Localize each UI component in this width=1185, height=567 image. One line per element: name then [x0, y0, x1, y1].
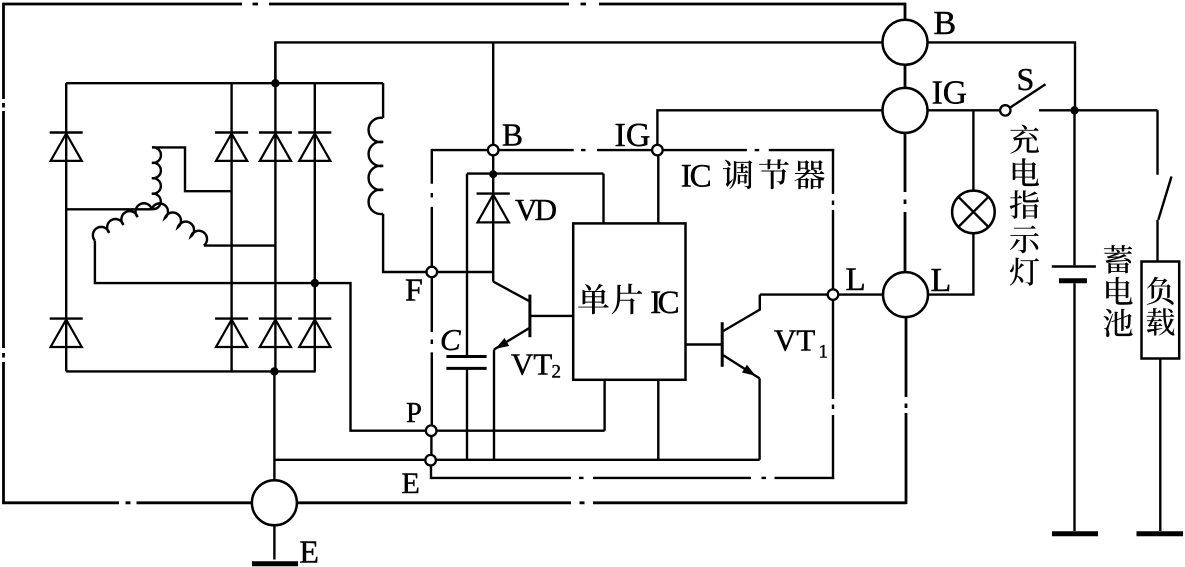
wire diode column 1	[65, 83, 67, 371]
transistor VT2 base bar	[528, 295, 531, 338]
label VT2	[511, 347, 561, 383]
IC regulator enclosure bottom (dash-dot)	[431, 477, 834, 479]
stator winding phase 1 (top coil)	[152, 147, 161, 209]
wire battery negative to ground	[1073, 283, 1075, 531]
switch S lever	[1011, 84, 1046, 107]
svg-text:IG: IG	[932, 75, 967, 112]
ground battery	[1052, 531, 1098, 536]
terminal B (circle)	[883, 20, 928, 65]
transistor VT1 emitter	[723, 355, 759, 378]
diode negative rectifier D8	[298, 319, 331, 347]
node E (regulator terminal)	[425, 455, 436, 466]
rotor field winding (coil)	[369, 118, 384, 214]
svg-text:E: E	[402, 467, 420, 500]
node P (regulator terminal)	[426, 425, 437, 436]
wire B internal rail	[467, 172, 604, 174]
battery 蓄电池 plates	[1052, 267, 1096, 281]
wire node L to terminal L	[838, 293, 883, 295]
wire B+ to terminal B	[275, 42, 883, 83]
svg-text:VT: VT	[511, 347, 552, 382]
stator winding phase 2 (right coil)	[152, 203, 207, 245]
wire terminal IG to switch	[927, 109, 1000, 111]
junction dot battery node	[1070, 106, 1078, 114]
wire E line (regulator)	[436, 459, 760, 461]
wire node B to junction	[492, 155, 494, 281]
switch S contact	[1000, 105, 1010, 115]
charge indicator lamp	[952, 191, 995, 234]
IC regulator enclosure left (dash-dot)	[430, 149, 433, 479]
junction dot phase 3 / diode column 4	[311, 279, 319, 287]
load box 负载	[1142, 262, 1180, 359]
label IC 调节器	[681, 159, 825, 195]
transistor VT1 collector	[723, 295, 760, 331]
diode positive rectifier D1	[50, 133, 83, 161]
svg-text:S: S	[1017, 61, 1035, 97]
wire VT2 base to IC	[531, 315, 573, 317]
svg-text:2: 2	[552, 362, 562, 383]
transistor VT2 emitter	[494, 328, 529, 350]
transistor VT1 base bar	[721, 322, 724, 367]
wire phase 3 tap to P	[95, 241, 426, 431]
wire diode column 2	[230, 83, 232, 371]
diode VD	[477, 194, 510, 223]
wire E lead (ground bus to terminal E)	[273, 371, 275, 481]
transistor VT2 emitter arrow	[495, 338, 509, 349]
wire B feed to node B	[492, 42, 494, 144]
svg-text:1: 1	[819, 342, 829, 363]
ground chassis (E)	[252, 561, 298, 566]
wire E branch to regulator	[275, 459, 425, 461]
svg-text:E: E	[299, 534, 319, 567]
load switch lever	[1158, 177, 1171, 220]
transistor VT1 emitter arrow	[742, 365, 756, 376]
wire terminal E to chassis	[273, 525, 275, 560]
node IG (regulator terminal)	[652, 145, 663, 156]
ground load	[1137, 531, 1184, 536]
junction dot B+ bus / output	[271, 79, 279, 87]
diode negative rectifier D6	[215, 319, 248, 347]
wire B+ bus (top)	[66, 82, 383, 84]
wire field winding top	[382, 83, 384, 118]
terminal L (circle)	[883, 272, 928, 317]
alternator enclosure top border (dash-dot)	[3, 3, 906, 6]
wire VT1 emitter to E line	[758, 378, 760, 459]
wire load to ground	[1159, 359, 1161, 532]
svg-text:F: F	[405, 272, 423, 308]
wire switch to battery node	[1039, 109, 1158, 111]
stator winding phase 3 (left coil)	[93, 203, 152, 240]
IC regulator enclosure top (dash-dot)	[432, 149, 834, 151]
diode positive rectifier D2	[215, 133, 248, 161]
label 蓄电池	[1103, 245, 1132, 337]
terminal E (circle)	[252, 480, 297, 525]
wire IC to IG node	[657, 155, 659, 223]
wire terminal B to battery node	[927, 42, 1075, 110]
svg-text:IC: IC	[681, 159, 712, 195]
svg-text:VT: VT	[774, 323, 815, 358]
diode positive rectifier D3	[259, 133, 292, 161]
svg-text:B: B	[934, 5, 957, 42]
wire load switch to load	[1156, 220, 1158, 262]
wire load branch	[1156, 110, 1158, 175]
wire diode column 3	[274, 42, 276, 371]
wire ground bus (bottom)	[66, 370, 315, 372]
diode negative rectifier D5	[50, 319, 83, 347]
wire battery positive	[1073, 110, 1075, 265]
wire P line	[437, 430, 605, 432]
wire VT2 emitter to E line	[493, 350, 495, 460]
node F (regulator terminal)	[427, 267, 438, 278]
svg-text:B: B	[502, 118, 523, 153]
svg-text:VD: VD	[515, 192, 557, 227]
svg-text:P: P	[406, 398, 422, 429]
wire field winding to F	[383, 214, 427, 272]
monolithic IC box (单片 IC)	[573, 223, 685, 379]
wire IG node to terminal IG	[657, 110, 883, 145]
svg-text:IC: IC	[650, 285, 680, 321]
alternator enclosure left border (dash-dot)	[2, 3, 5, 504]
wire rail to IC supply	[602, 174, 604, 224]
wire lamp to terminal L	[928, 233, 973, 294]
wire IC to E line	[657, 380, 659, 460]
svg-text:IG: IG	[615, 117, 651, 154]
wire F to VT2 collector	[437, 271, 493, 273]
wire lamp branch	[972, 110, 974, 190]
diode positive rectifier D4	[298, 133, 331, 161]
junction dot ground bus / E lead	[270, 367, 278, 375]
wire rail to capacitor	[466, 174, 468, 357]
wire VT1 collector to node L	[760, 293, 828, 295]
junction dot B internal	[489, 170, 497, 178]
terminal IG (circle)	[883, 88, 928, 133]
wire phase 1 tap	[152, 147, 232, 191]
node B (regulator terminal)	[488, 145, 499, 156]
wire IC to P line	[603, 380, 605, 431]
wire IC to VT1 base	[686, 343, 722, 345]
wire phase 2 tap	[204, 244, 276, 246]
wire neutral point	[66, 208, 152, 210]
label 负载	[1146, 277, 1174, 336]
diode negative rectifier D7	[259, 319, 292, 347]
node L (regulator terminal)	[828, 289, 839, 300]
alternator enclosure right border through terminals	[905, 3, 906, 504]
svg-text:L: L	[846, 262, 866, 298]
alternator enclosure bottom border (dash-dot)	[2, 501, 906, 504]
svg-text:C: C	[440, 322, 461, 357]
label 充电指示灯	[1010, 125, 1039, 286]
capacitor C	[446, 357, 486, 369]
transistor VT2 collector	[493, 282, 529, 302]
wire capacitor to E line	[466, 368, 468, 459]
IC regulator enclosure right (dash-dot)	[832, 149, 834, 479]
wire diode column 4	[314, 83, 316, 371]
label 单片 IC	[578, 284, 680, 321]
label VT1	[774, 323, 828, 363]
